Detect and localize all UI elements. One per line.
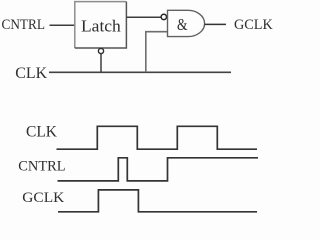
svg-text:Latch: Latch [81,16,122,35]
wire latch output to bubble [126,16,161,18]
svg-text:GCLK: GCLK [234,17,273,33]
GCLK waveform [58,190,257,212]
inverter bubble at AND input [161,14,166,19]
wire CNTRL to latch [50,24,75,26]
wire latch enable to CLK line [100,54,102,73]
latch enable bubble [98,48,103,53]
CNTRL waveform [58,158,259,181]
svg-text:CNTRL: CNTRL [18,158,65,174]
latch U1 [75,2,127,48]
svg-text:GCLK: GCLK [22,190,64,206]
CLK waveform [57,126,258,149]
AND gate U2 [168,10,205,36]
wire CLK up to AND gate lower input [146,32,168,73]
wire AND output to GCLK [205,23,226,25]
wire CLK [49,71,231,73]
svg-text:CNTRL: CNTRL [2,17,46,33]
svg-text:CLK: CLK [26,123,58,140]
svg-text:CLK: CLK [15,65,48,82]
svg-text:&: & [177,15,188,34]
